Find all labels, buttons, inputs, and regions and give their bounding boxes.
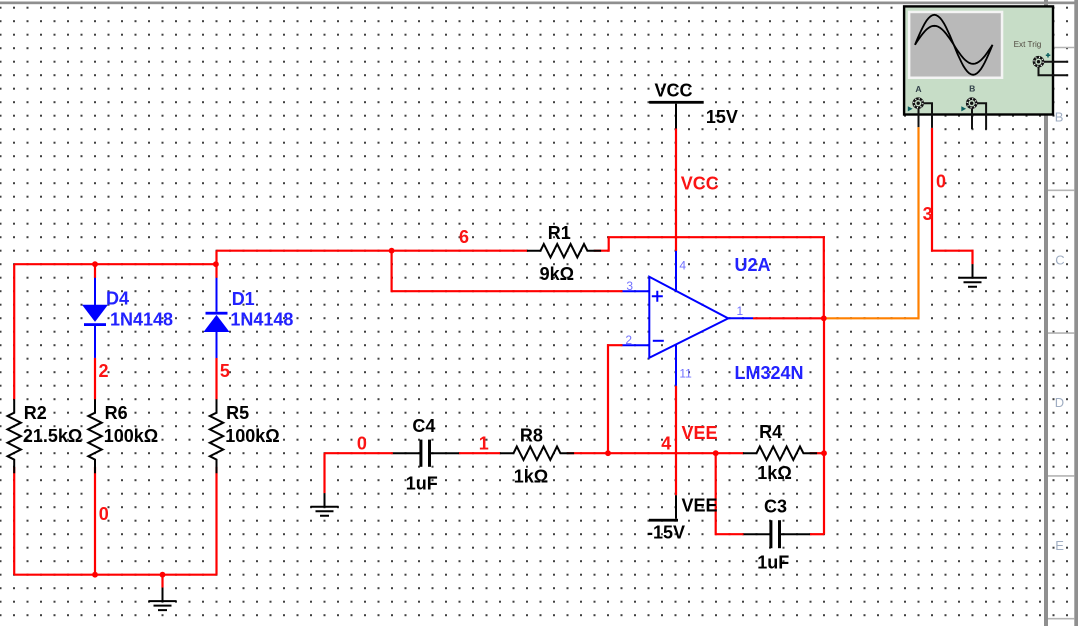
junction: output node <box>821 315 827 321</box>
wire: node 5 between D1 and R5 <box>215 358 217 399</box>
wire: op-amp output to junction <box>753 317 824 319</box>
scope Ext Trig polarity <box>1046 53 1051 58</box>
junction: node 6 split <box>389 248 395 254</box>
wire: op-amp pin 11 down to VEE <box>675 386 677 496</box>
svg-text:C: C <box>1055 252 1064 267</box>
capacitor C4 <box>393 452 459 454</box>
wire: bottom bus C4 left <box>325 452 393 454</box>
ground: scope reference <box>972 264 974 278</box>
svg-text:0: 0 <box>99 504 109 524</box>
wire: pin3 branch from node 6 <box>392 251 623 292</box>
op-amp U2A triangle <box>649 277 728 358</box>
scope stub wires <box>919 103 987 129</box>
scope terminal B polarity <box>961 106 966 111</box>
wire: C3 left leg <box>716 453 744 534</box>
wire: left loop top horizontal (node to diodes) <box>14 263 216 265</box>
scope terminal B <box>967 99 976 108</box>
right sheet border: outer gray bar <box>1074 0 1078 626</box>
junction: D4 top <box>92 261 98 267</box>
svg-text:5: 5 <box>220 361 230 381</box>
oscilloscope XSC body <box>904 6 1053 114</box>
wire: C4 ground leg <box>323 453 325 493</box>
svg-text:1uF: 1uF <box>757 552 789 572</box>
oscilloscope waveform large <box>915 15 993 75</box>
op-amp - sign <box>653 340 664 342</box>
svg-text:0: 0 <box>357 433 367 453</box>
op-amp pin 11 lead <box>675 344 677 386</box>
svg-text:D1: D1 <box>232 289 255 309</box>
svg-text:0: 0 <box>936 171 946 191</box>
svg-text:R8: R8 <box>520 425 543 445</box>
svg-text:11: 11 <box>679 366 692 380</box>
svg-text:VEE: VEE <box>682 496 718 516</box>
right sheet border: inner gray bar <box>1044 0 1048 626</box>
oscilloscope waveform small <box>915 26 993 64</box>
ground: below C4 leg <box>324 493 326 507</box>
junction: pin2 at bottom bus <box>605 450 611 456</box>
wire: scope A- down and to ground (node 3) <box>932 128 973 264</box>
wire: node 6 horizontal to R1 <box>217 250 528 252</box>
svg-text:B: B <box>1055 110 1064 125</box>
svg-text:-15V: -15V <box>647 523 685 543</box>
svg-text:A: A <box>915 84 921 94</box>
scope terminal A polarity <box>908 106 913 111</box>
wire: R1 right lead to feedback step <box>594 237 824 318</box>
junction: C3 left branch <box>713 450 719 456</box>
top gray border bar <box>0 2 1078 5</box>
svg-text:VEE: VEE <box>682 423 718 443</box>
wire: VCC rail down to op-amp pin 4 <box>675 129 677 251</box>
ground: bottom-left <box>162 588 164 602</box>
capacitor C3 <box>744 533 811 535</box>
junction: D1 top <box>213 261 219 267</box>
svg-text:R1: R1 <box>548 223 571 243</box>
svg-text:B: B <box>969 83 975 93</box>
resistor R5 <box>210 399 223 473</box>
svg-text:2: 2 <box>99 361 109 381</box>
resistor R8 <box>500 447 574 460</box>
svg-text:3: 3 <box>626 279 633 293</box>
resistor R2 <box>8 399 21 473</box>
junction: R6 bottom <box>92 572 98 578</box>
wire: node 2 between D4 and R6 <box>94 358 96 400</box>
svg-text:100kΩ: 100kΩ <box>225 426 279 446</box>
svg-text:3: 3 <box>923 204 933 224</box>
wire: D1 top lead / riser to node 6 wire <box>215 251 217 278</box>
diode D4 (cathode down) <box>94 278 96 358</box>
svg-text:C4: C4 <box>412 416 435 436</box>
svg-text:1: 1 <box>479 433 489 453</box>
diode D1 (cathode up) <box>216 278 218 358</box>
svg-text:2: 2 <box>625 333 632 347</box>
wire: bottom bus R8 to R4 <box>567 452 744 454</box>
svg-text:U2A: U2A <box>735 255 771 275</box>
wire: pin2 branch <box>608 345 623 453</box>
wire: ground stem at bottom-left (red part) <box>161 575 163 588</box>
wire: left vertical branch with R2 (lower red lead) <box>13 467 15 575</box>
resistor R1 <box>527 244 601 257</box>
svg-text:1: 1 <box>737 304 744 318</box>
svg-text:100kΩ: 100kΩ <box>104 426 158 446</box>
svg-text:C3: C3 <box>764 497 787 517</box>
svg-text:R5: R5 <box>226 403 249 423</box>
VEE power symbol <box>649 519 678 522</box>
junction: R4 right branch <box>821 450 827 456</box>
wire: bottom-left horizontal <box>14 574 216 576</box>
svg-text:E: E <box>1055 538 1064 553</box>
op-amp pin 1 output lead <box>728 317 753 319</box>
oscilloscope screen frame <box>908 11 1003 79</box>
svg-text:D4: D4 <box>106 288 129 308</box>
wire: bottom bus C4-R8 <box>459 452 500 454</box>
wire: right riser (output to C3 bottom) <box>823 318 825 534</box>
svg-text:Ext Trig: Ext Trig <box>1014 40 1042 49</box>
op-amp pin 3 lead <box>623 290 650 292</box>
wire: D4 top lead (red) <box>94 264 96 278</box>
VCC power symbol <box>649 101 704 104</box>
resistor R4 <box>743 447 817 460</box>
svg-text:VCC: VCC <box>681 173 719 193</box>
right border zone divider lines <box>1048 48 1074 619</box>
svg-text:1kΩ: 1kΩ <box>757 463 791 483</box>
resistor R6 <box>88 399 101 473</box>
op-amp pin 2 lead <box>623 344 650 346</box>
wire: R4 right lead to right riser <box>810 452 824 454</box>
wire: left vertical branch with R2 (upper red lead) <box>13 264 15 399</box>
svg-text:D: D <box>1055 395 1064 410</box>
svg-text:R2: R2 <box>24 403 47 423</box>
op-amp + sign <box>652 291 663 302</box>
svg-text:R6: R6 <box>105 403 128 423</box>
op-amp pin 4 lead <box>675 251 677 292</box>
svg-text:4: 4 <box>679 258 686 272</box>
svg-text:15V: 15V <box>706 107 738 127</box>
scope terminal Ext Trig <box>1034 57 1043 66</box>
svg-text:R4: R4 <box>759 422 782 442</box>
svg-text:VCC: VCC <box>655 80 693 100</box>
svg-text:1N4148: 1N4148 <box>110 310 173 330</box>
scope terminal A <box>914 99 923 108</box>
svg-text:1uF: 1uF <box>406 474 438 494</box>
svg-text:6: 6 <box>459 227 469 247</box>
wire: R6 bottom to bottom wire <box>94 467 96 575</box>
wire: C3 right lead to riser <box>810 533 824 535</box>
junction: ground bottom-left <box>160 572 166 578</box>
svg-text:4: 4 <box>661 433 671 453</box>
wire: R5 bottom to bottom wire <box>215 467 217 575</box>
svg-text:LM324N: LM324N <box>735 363 804 383</box>
svg-text:9kΩ: 9kΩ <box>540 264 574 284</box>
svg-text:1kΩ: 1kΩ <box>514 466 548 486</box>
svg-text:21.5kΩ: 21.5kΩ <box>23 426 82 446</box>
wire: orange output to scope A <box>824 127 919 318</box>
svg-text:1N4148: 1N4148 <box>230 310 293 330</box>
